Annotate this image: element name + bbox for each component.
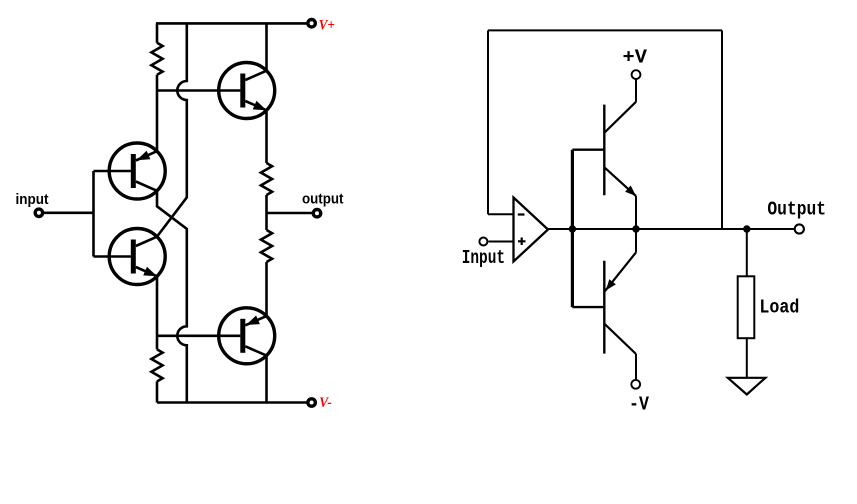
svg-text:Load: Load — [759, 296, 799, 318]
svg-text:input: input — [16, 191, 49, 208]
svg-text:Output: Output — [767, 198, 826, 220]
svg-text:V+: V+ — [319, 18, 335, 34]
svg-text:-V: -V — [629, 393, 649, 415]
svg-text:Input: Input — [462, 247, 505, 269]
svg-text:output: output — [302, 191, 344, 208]
svg-text:V-: V- — [319, 395, 332, 411]
svg-text:+V: +V — [623, 47, 648, 69]
